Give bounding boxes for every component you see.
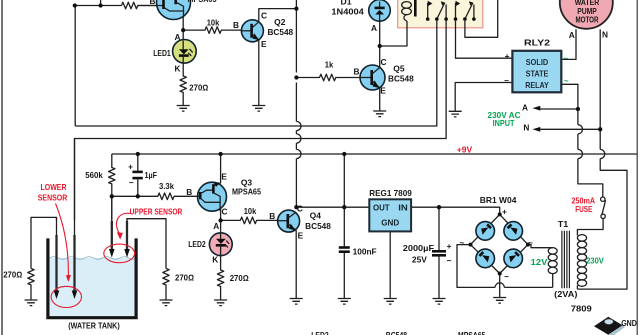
svg-text:B: B [186, 187, 192, 197]
svg-text:25V: 25V [412, 254, 427, 264]
svg-text:+: + [447, 241, 452, 251]
svg-text:BC548: BC548 [305, 221, 331, 231]
svg-text:LED2: LED2 [188, 239, 206, 249]
svg-text:270Ω: 270Ω [189, 82, 209, 92]
svg-text:B: B [150, 0, 156, 6]
svg-text:270Ω: 270Ω [3, 269, 23, 279]
svg-text:RELAY: RELAY [525, 80, 549, 90]
svg-text:IN: IN [398, 202, 408, 212]
svg-text:Q4: Q4 [310, 211, 322, 221]
svg-text:10k: 10k [244, 206, 257, 216]
svg-text:FUSE: FUSE [575, 205, 593, 214]
svg-text:MPSA65: MPSA65 [232, 187, 261, 197]
svg-text:A: A [213, 221, 219, 231]
svg-text:1k: 1k [325, 60, 334, 70]
svg-text:PUMP: PUMP [577, 7, 597, 16]
svg-text:(2VA): (2VA) [554, 289, 578, 299]
svg-text:GND: GND [621, 318, 637, 328]
svg-text:MOTOR: MOTOR [576, 16, 599, 25]
svg-text:1µF: 1µF [145, 170, 158, 180]
svg-text:A: A [371, 23, 377, 33]
svg-text:1N4004: 1N4004 [331, 7, 364, 17]
svg-text:560k: 560k [85, 170, 103, 180]
svg-text:A: A [175, 32, 181, 42]
svg-text:C: C [297, 203, 303, 213]
svg-text:E: E [380, 86, 386, 96]
svg-text:LED1: LED1 [153, 48, 171, 58]
svg-text:SOLID: SOLID [526, 57, 548, 67]
svg-text:2000µF: 2000µF [403, 243, 434, 253]
svg-text:+: + [505, 51, 510, 61]
svg-text:3.3k: 3.3k [159, 181, 174, 191]
svg-text:STATE: STATE [526, 68, 549, 78]
svg-text:+9V: +9V [457, 146, 473, 155]
svg-text:E: E [298, 231, 304, 241]
svg-text:E: E [221, 172, 227, 182]
svg-text:BC548: BC548 [388, 74, 414, 84]
svg-text:B: B [233, 20, 239, 30]
svg-text:B: B [354, 66, 360, 76]
svg-text:B: B [269, 211, 275, 221]
svg-text:RLY2: RLY2 [524, 39, 551, 48]
svg-text:−: − [129, 177, 134, 187]
svg-text:(WATER TANK): (WATER TANK) [68, 320, 120, 330]
svg-text:+: + [128, 162, 133, 172]
svg-text:MPSA65: MPSA65 [188, 0, 217, 4]
svg-text:BR1 W04: BR1 W04 [480, 196, 517, 205]
svg-text:BC548: BC548 [386, 330, 408, 335]
svg-text:REG1 7809: REG1 7809 [369, 189, 412, 198]
svg-text:~: ~ [563, 54, 568, 63]
svg-text:+: + [502, 206, 507, 216]
svg-text:Q2: Q2 [274, 17, 286, 27]
svg-text:A: A [569, 30, 575, 40]
svg-text:D1: D1 [341, 0, 352, 7]
svg-text:N: N [602, 29, 608, 39]
svg-text:~: ~ [528, 237, 533, 247]
svg-text:−: − [504, 271, 509, 281]
svg-text:−: − [504, 76, 509, 86]
svg-text:UPPER SENSOR: UPPER SENSOR [130, 207, 183, 216]
svg-text:C: C [381, 57, 387, 67]
svg-text:LOWER: LOWER [41, 183, 67, 192]
svg-text:270Ω: 270Ω [175, 273, 195, 283]
svg-text:A: A [522, 103, 528, 113]
svg-text:LED2: LED2 [311, 330, 329, 335]
svg-text:T1: T1 [558, 220, 569, 229]
svg-text:10k: 10k [207, 18, 220, 28]
svg-text:BC548: BC548 [267, 27, 293, 37]
svg-text:GND: GND [381, 217, 399, 227]
svg-text:K: K [175, 64, 181, 74]
svg-text:~: ~ [564, 77, 569, 86]
svg-text:SENSOR: SENSOR [38, 193, 68, 202]
svg-text:K: K [212, 255, 218, 265]
svg-text:230V: 230V [586, 257, 604, 266]
svg-text:7809: 7809 [571, 304, 592, 314]
svg-text:−: − [447, 255, 452, 265]
svg-text:270Ω: 270Ω [230, 273, 250, 283]
svg-text:E: E [261, 39, 267, 49]
svg-text:MPSA65: MPSA65 [458, 330, 486, 335]
svg-text:INPUT: INPUT [493, 119, 515, 128]
svg-text:OUT: OUT [373, 202, 390, 212]
svg-text:Q5: Q5 [393, 64, 405, 74]
svg-text:100nF: 100nF [353, 247, 377, 257]
svg-text:12V: 12V [531, 258, 548, 267]
svg-text:C: C [261, 10, 267, 20]
svg-text:N: N [523, 122, 529, 132]
svg-text:C: C [222, 206, 228, 216]
svg-text:~: ~ [459, 237, 464, 247]
